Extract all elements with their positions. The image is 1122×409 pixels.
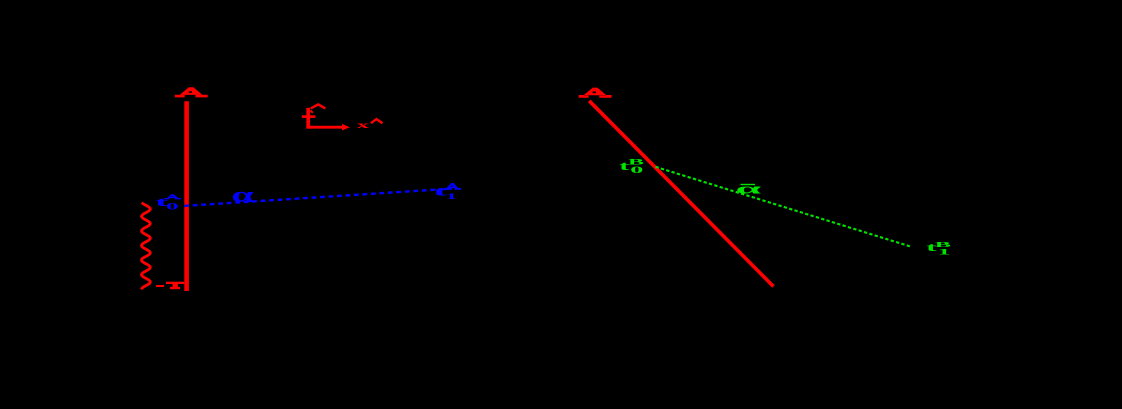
label alpha-bar (green): [736, 180, 761, 197]
label t0^B: [619, 157, 644, 175]
green dotted line: [656, 167, 913, 247]
label t1^A: [433, 183, 461, 201]
blue dashed simultaneity line: [184, 189, 452, 206]
svg-text:α: α: [736, 180, 761, 197]
label t1^B: [926, 240, 951, 257]
worldline A (left, vertical red line): [184, 101, 189, 291]
photon squiggle: [142, 203, 151, 290]
svg-text:x: x: [357, 120, 370, 130]
mini frame axes: [306, 108, 342, 129]
worldline A (right, tilted red line): [589, 101, 773, 287]
svg-text:α: α: [232, 182, 254, 207]
worldline A label (right panel): [579, 88, 612, 98]
svg-text:1: 1: [446, 191, 457, 201]
mini frame t-hat label: [302, 104, 326, 116]
mini frame arrowhead: [342, 124, 350, 131]
label t0^A: [155, 194, 181, 211]
svg-text:1: 1: [938, 247, 951, 256]
label -I at bottom: [156, 282, 184, 289]
worldline A label (left panel): [175, 87, 208, 97]
svg-text:0: 0: [166, 201, 179, 211]
svg-text:0: 0: [630, 166, 643, 176]
